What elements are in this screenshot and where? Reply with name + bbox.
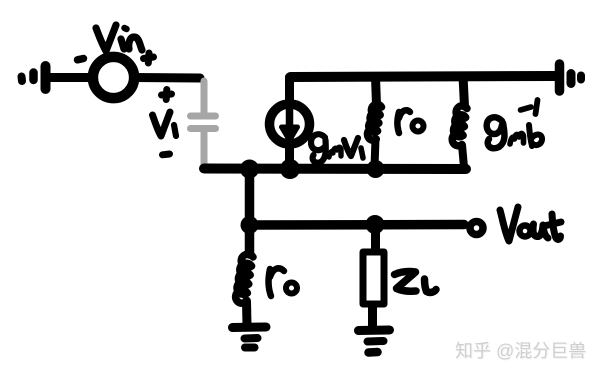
label gmV1 [311, 134, 363, 162]
ground under ZL [359, 330, 390, 353]
wire stub r0 top to rail [375, 139, 376, 167]
wire stub rail to gmb [463, 76, 465, 106]
label r0 top [398, 110, 424, 133]
resistor r0 top (coil) [367, 104, 381, 140]
minus sign of Vin [78, 59, 84, 60]
label r0 bottom [269, 268, 297, 296]
minus sign of V1 [163, 151, 170, 159]
impedance ZL (box) [363, 252, 384, 304]
wire output rail [250, 220, 465, 230]
label gmb^-1 [487, 100, 542, 148]
plus sign of V1 [162, 90, 172, 100]
wire source node down [245, 169, 255, 254]
label ZL [395, 272, 437, 293]
watermark zhihu [455, 337, 586, 363]
wire top rail [291, 76, 556, 77]
wire output rail to ZL [371, 225, 380, 252]
wire source-node rail [204, 164, 466, 175]
label Vout [500, 207, 561, 241]
node current-source bottom junction [280, 159, 300, 179]
node output-left junction [241, 216, 259, 234]
wire r0 bottom to ground [242, 301, 252, 326]
wire source to gate node [134, 73, 200, 83]
node r0 bottom junction [367, 160, 385, 178]
wire ground to source Vin [49, 73, 92, 82]
ground under r0 [233, 327, 267, 348]
ground left [22, 66, 46, 89]
label Vin [96, 25, 142, 51]
conductance 1/gmb (coil) [452, 106, 467, 146]
wire stub rail to r0 top [376, 77, 377, 105]
plus sign of Vin [144, 53, 154, 63]
terminal Vout [470, 222, 483, 235]
current source gmV1 [270, 104, 310, 167]
label V1 [153, 112, 177, 136]
wire ZL to ground [368, 305, 377, 329]
resistor r0 bottom (coil) [236, 254, 253, 303]
node ZL top junction [366, 215, 385, 234]
voltage source Vin [93, 57, 134, 98]
wire stub rail to current source [285, 77, 294, 104]
capacitor V1 (gray) [191, 81, 216, 164]
node gate-source junction [240, 160, 259, 179]
wire stub gmb to rail [462, 145, 464, 167]
ground right [560, 64, 582, 91]
